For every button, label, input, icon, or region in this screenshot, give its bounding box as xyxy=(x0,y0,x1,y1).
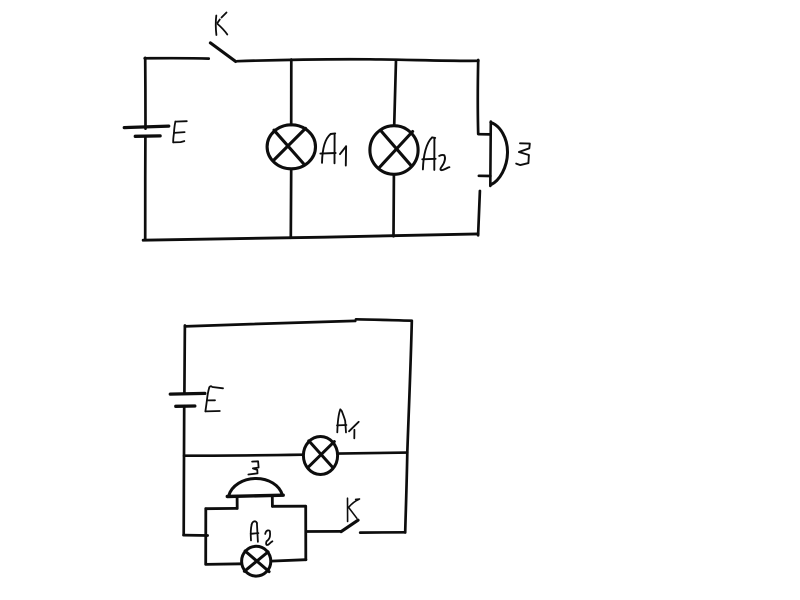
label E (bottom battery) xyxy=(205,386,223,411)
wire lamp L1 branch bottom xyxy=(289,169,292,238)
switch K blade (bottom) xyxy=(341,520,358,531)
label A1 (top lamp 1) xyxy=(320,133,346,165)
lamp L1 circle xyxy=(267,125,315,169)
battery E short plate (bottom) xyxy=(176,404,195,408)
label E (top battery) xyxy=(173,121,187,142)
wire lamp L2 branch top xyxy=(394,60,396,126)
bell top stub xyxy=(479,133,491,136)
bell right stub (bottom) xyxy=(271,496,274,506)
label A2 (bottom lamp 2) xyxy=(251,521,273,545)
bell chord xyxy=(489,122,492,186)
wire lamp L2 branch bottom xyxy=(392,175,395,237)
wire connector to parallel block xyxy=(184,534,208,537)
bell bottom stub xyxy=(479,174,491,177)
parallel block bottom-right edge xyxy=(271,560,306,561)
wire lamp L1 branch top xyxy=(290,60,293,126)
bell dome arc (bottom) xyxy=(229,479,283,497)
parallel block top-left edge xyxy=(206,507,237,510)
lamp L1 cross (bottom) xyxy=(308,441,335,468)
wire right vertical xyxy=(405,321,412,532)
wire block to switch xyxy=(306,530,341,533)
switch K blade xyxy=(210,43,235,62)
wire top (with step) xyxy=(185,321,355,327)
label 3 (top bell) xyxy=(516,143,530,165)
lamp L2 cross (bottom) xyxy=(244,551,269,572)
wire left upper xyxy=(183,326,186,394)
wire middle right xyxy=(338,453,408,454)
wire middle left xyxy=(184,455,304,456)
wire top-left segment xyxy=(145,57,209,60)
wire top-right segment xyxy=(237,59,478,61)
lamp L1 circle (bottom) xyxy=(303,437,337,475)
parallel block right edge xyxy=(304,506,307,559)
label A1 (bottom lamp 1) xyxy=(337,409,359,438)
lamp L2 circle xyxy=(370,126,418,175)
lamp L1 cross xyxy=(273,128,305,163)
wire bottom xyxy=(143,234,478,240)
wire right lower xyxy=(478,191,480,235)
parallel block top-right edge xyxy=(272,505,305,508)
battery E long plate xyxy=(124,126,168,128)
wire left lower xyxy=(144,136,147,240)
label K (bottom switch) xyxy=(348,498,360,521)
label K (top switch) xyxy=(216,13,228,36)
wire left upper xyxy=(144,58,147,129)
lamp L2 circle (bottom) xyxy=(242,546,271,576)
bell base (bottom) xyxy=(227,495,283,496)
battery E long plate (bottom) xyxy=(170,392,205,396)
label 3 (bottom bell) xyxy=(248,461,258,474)
parallel block left edge xyxy=(204,509,207,565)
battery E short plate xyxy=(135,134,160,138)
wire left lower xyxy=(182,406,185,534)
wire right upper xyxy=(477,60,480,134)
bell left stub (bottom) xyxy=(236,497,239,509)
lamp L2 cross xyxy=(379,131,413,169)
label A2 (top lamp 2) xyxy=(422,137,449,170)
parallel block bottom-left edge xyxy=(206,562,242,565)
wire switch to corner xyxy=(360,531,405,534)
bell arc xyxy=(491,122,508,184)
